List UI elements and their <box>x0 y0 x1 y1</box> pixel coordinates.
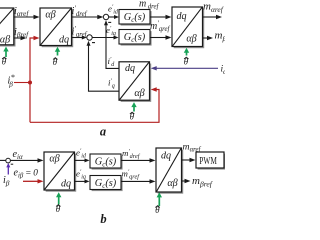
wire m'_qref from B3 to B4 <box>121 180 150 182</box>
svg-text:dq: dq <box>125 63 135 74</box>
svg-text:Gc(s): Gc(s) <box>124 12 146 24</box>
purple arrow i_beta into junction b <box>7 167 9 175</box>
svg-text:β: β <box>8 80 13 88</box>
wire m'_dref from B2 to B4 <box>121 159 150 161</box>
block B4 dq-to-alphabeta transform <box>156 148 183 194</box>
svg-text:αβ: αβ <box>186 34 197 45</box>
wire m'_dref from Gc1 to A3 <box>150 16 166 18</box>
minus sign at d junction <box>108 21 111 23</box>
svg-text:Gc(s): Gc(s) <box>124 32 146 44</box>
svg-text:θ: θ <box>155 205 160 215</box>
summing junction d <box>103 14 108 19</box>
theta-hat input arrow for B1 <box>58 196 60 204</box>
svg-text:dq: dq <box>59 35 69 46</box>
svg-text:θ: θ <box>2 57 7 67</box>
red arrow e_i_beta = 0 into B1 <box>23 180 38 182</box>
svg-text:dq: dq <box>176 11 186 22</box>
block A4 feedback alphabeta-to-dq transform <box>119 62 151 102</box>
svg-text:eiβ = 0: eiβ = 0 <box>14 168 39 180</box>
wire m_alpha_ref from B4 to PWM <box>182 159 191 161</box>
theta-hat input arrow for B4 <box>158 196 160 206</box>
wire i_beta_ref from A1 (short arrow) <box>14 37 21 39</box>
wire i'_qref from A2 to q summing junction <box>72 37 83 39</box>
controller block B2 Gc <box>90 154 123 170</box>
svg-text:θ: θ <box>56 204 61 214</box>
theta-hat input arrow for A3 <box>186 52 188 56</box>
red wire i*_beta rising into A2 lower input <box>30 38 35 122</box>
svg-text:a: a <box>100 125 106 139</box>
controller block B3 Gc <box>90 176 123 192</box>
svg-text:θ: θ <box>130 112 135 122</box>
summing junction q <box>87 35 92 40</box>
svg-text:b: b <box>100 212 106 225</box>
svg-text:αβ: αβ <box>167 178 178 189</box>
svg-text:dq: dq <box>161 151 171 162</box>
block A3 dq-to-alphabeta transform <box>172 7 204 48</box>
output arrow m_beta_ref <box>182 180 186 182</box>
feedback wire i'_q from A4 to q junction <box>89 45 120 92</box>
minus sign at q junction <box>92 42 95 44</box>
theta-hat input arrow for A1 <box>5 51 7 58</box>
purple wire i_alpha from right edge into A4 <box>155 67 218 69</box>
svg-text:αβ: αβ <box>49 154 60 165</box>
svg-text:dq: dq <box>61 179 71 190</box>
output arrow m_alpha_ref <box>203 16 217 18</box>
red label stub for i*_beta <box>14 82 30 84</box>
wire e'_id from B1 to Gc block B2 <box>75 159 86 161</box>
wire m'_qref from Gc2 to A3 <box>150 37 166 39</box>
controller block Gc2 <box>119 30 152 46</box>
svg-text:αβ: αβ <box>0 35 11 46</box>
block A1 dq-to-alphabeta transform (clipped at left edge) <box>0 8 16 47</box>
wire e_i_alpha from junction to B1 <box>10 159 38 161</box>
output arrow m_beta clipped <box>203 37 208 39</box>
svg-text:Gc(s): Gc(s) <box>95 178 117 190</box>
feedback wire i'_d from A4 to d junction <box>106 24 119 68</box>
red feedback loop from i*_beta wire into A4 lower input <box>30 90 159 123</box>
theta-hat input arrow for A2 <box>57 51 59 56</box>
svg-text:αβ: αβ <box>134 88 145 99</box>
block A2 alphabeta-to-dq transform <box>40 8 73 47</box>
block B1 alphabeta-to-dq transform <box>44 152 76 192</box>
wire e'_iq from B1 to Gc block B3 <box>75 180 86 182</box>
svg-text:θ: θ <box>53 57 58 67</box>
block PWM <box>196 152 226 170</box>
svg-text:PWM: PWM <box>199 155 217 167</box>
minus sign at junction b <box>11 163 14 165</box>
controller block Gc1 <box>119 10 152 26</box>
wire i'_dref from A2 to d summing junction <box>72 16 98 18</box>
wire e'_id from d junction to Gc1 <box>109 16 115 18</box>
svg-text:θ: θ <box>184 57 189 67</box>
wire e'_iq from q junction to Gc2 <box>92 37 114 39</box>
summing junction b <box>6 158 11 163</box>
theta-hat input arrow for A4 <box>133 106 135 111</box>
input stub wire into summing junction b <box>0 159 6 161</box>
svg-text:αβ: αβ <box>45 10 56 21</box>
wire i_alpha_ref from A1 to A2 <box>14 16 34 18</box>
svg-text:Gc(s): Gc(s) <box>95 156 117 168</box>
red junction dot on i*_beta wire <box>28 81 32 85</box>
